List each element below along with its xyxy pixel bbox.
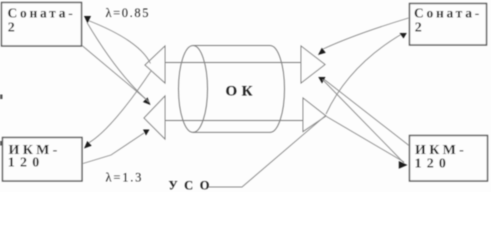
scan artifact tick left edge upper (0, 95, 3, 100)
wire: Соната-2 right to upper-right coupler (322, 18, 409, 50)
svg-text:120: 120 (8, 156, 45, 171)
wire: Соната-2 left to lower-left coupler (82, 46, 147, 101)
svg-text:УСО: УСО (169, 179, 216, 193)
svg-text:2: 2 (8, 21, 15, 36)
wire: upper-left coupler to ИКМ-120 left (88, 71, 152, 144)
svg-text:Соната-: Соната- (8, 6, 76, 21)
fiber wire top (right-to-left channel) (165, 62, 301, 64)
arrowhead at Соната-2 left (84, 16, 91, 24)
box ИКМ-120 right (410, 136, 488, 182)
arrowhead at ИКМ-120 left (84, 141, 92, 149)
wire: ИКМ-120 right to upper-right coupler (323, 79, 409, 146)
wire: upper-left coupler to Соната-2 left (87, 20, 151, 64)
coupler triangle upper-right (transmit, УСО) (301, 46, 325, 83)
coupler triangle upper-left (receive) (145, 46, 165, 83)
optical cable cylinder ОК (179, 45, 285, 132)
box ИКМ-120 left (3, 138, 83, 182)
svg-text:Соната-: Соната- (414, 6, 482, 21)
arrowhead into lower-left coupler bottom (143, 130, 150, 136)
arrowhead at Соната-2 right (400, 33, 407, 39)
wire: lower-right coupler to Соната-2 right (326, 33, 404, 114)
coupler triangle lower-right (receive) (303, 98, 326, 132)
box Соната-2 left (2, 3, 82, 47)
fiber wire bottom (left-to-right channel) (165, 120, 303, 122)
arrowhead into upper-right coupler top (318, 48, 326, 55)
arrowhead into upper-right coupler bottom (318, 77, 325, 84)
svg-text:ОК: ОК (226, 84, 258, 100)
wire corridor: ИКМ-120 right to upper-right coupler (through line A6-A8) (323, 80, 405, 164)
svg-text:2: 2 (415, 21, 422, 36)
scan artifact tick left edge lower (0, 141, 3, 146)
УСО callout leader line (208, 116, 325, 187)
arrowhead at ИКМ-120 right (399, 161, 408, 169)
svg-text:120: 120 (415, 157, 452, 172)
wire: ИКМ-120 left to lower-left coupler (83, 133, 144, 164)
arrowhead into lower-left coupler top (143, 97, 151, 105)
wire: lower-right coupler to ИКМ-120 right (327, 117, 405, 163)
svg-text:λ=0.85: λ=0.85 (106, 6, 151, 20)
coupler triangle lower-left (transmit, УСО) (144, 96, 165, 139)
wire corridor: Соната-2 left to lower-left coupler (through line A1-A3) (87, 23, 149, 103)
svg-text:λ=1.3: λ=1.3 (106, 171, 144, 185)
box Соната-2 right (410, 4, 487, 46)
